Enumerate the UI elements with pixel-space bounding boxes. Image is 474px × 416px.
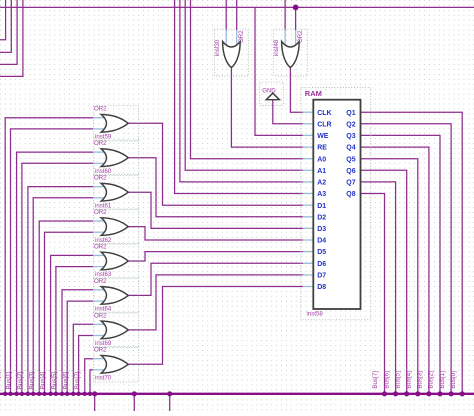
wire Bus[7] tap to inst70 in1 — [85, 359, 94, 394]
junction bus Q3 tap — [437, 391, 442, 396]
wire inst48 input A — [284, 0, 286, 31]
svg-text:Q3: Q3 — [346, 133, 355, 140]
junction bus Q6 tap — [404, 391, 409, 396]
wire inst63 out to D5 — [128, 252, 303, 261]
node label Bus[5] (left) — [51, 371, 62, 391]
svg-text:Q1: Q1 — [346, 110, 355, 117]
wire Bus[4] tap to inst63 in2 — [56, 267, 94, 394]
junction bus left tap 10 — [54, 392, 58, 396]
svg-text:CLK: CLK — [317, 110, 331, 117]
svg-text:Q7: Q7 — [346, 180, 355, 187]
wire Bus[2] tap to inst61 in1 — [28, 187, 94, 394]
svg-text:Bus[2]: Bus[2] — [428, 371, 435, 389]
svg-text:D6: D6 — [317, 261, 326, 268]
wire CLR net (GND) — [273, 100, 303, 124]
svg-text:inst48: inst48 — [273, 39, 280, 56]
node label Bus[6] (left) — [62, 371, 73, 391]
wire A1 net — [185, 0, 303, 170]
svg-text:Bus[4]: Bus[4] — [40, 371, 47, 389]
svg-text:RE: RE — [317, 145, 327, 152]
svg-text:Bus[7]: Bus[7] — [372, 371, 379, 389]
junction bus left tap 7 — [37, 392, 41, 396]
svg-text:D8: D8 — [317, 284, 326, 291]
junction bus left tap 13 — [71, 392, 75, 396]
svg-text:GND: GND — [262, 88, 276, 94]
wire CLK net (inst48 out) — [290, 68, 303, 113]
svg-text:D7: D7 — [317, 273, 326, 280]
svg-text:OR2: OR2 — [94, 106, 107, 113]
svg-text:inst58: inst58 — [307, 310, 324, 317]
or-gate inst30 (OR2, rotated) — [214, 29, 248, 76]
wire inst62 out to D4 — [128, 227, 303, 240]
or-gate inst60 (OR2) — [94, 140, 139, 175]
svg-text:inst70: inst70 — [95, 375, 112, 382]
svg-text:Bus[3]: Bus[3] — [28, 371, 35, 389]
svg-text:Bus[5]: Bus[5] — [394, 371, 401, 389]
svg-text:Bus[4]: Bus[4] — [406, 371, 413, 389]
svg-text:OR2: OR2 — [94, 175, 107, 182]
wire bus drop 3 — [169, 394, 171, 411]
wire top-left L4 — [0, 0, 23, 76]
junction bus drop 3 — [167, 391, 172, 396]
wire Bus[1] tap to inst60 in2 — [22, 163, 94, 393]
node label Bus[2] (left) — [17, 371, 28, 391]
wire inst30 input A — [225, 0, 227, 31]
wire Q4 to Bus[3] tap — [360, 147, 429, 394]
node label Bus[3] (left) — [28, 371, 38, 391]
svg-text:OR2: OR2 — [94, 209, 107, 216]
or-gate inst59 (OR2) — [94, 106, 139, 141]
junction bus left tap 14 — [76, 392, 80, 396]
wire inst48 input B (from rail) — [295, 7, 297, 30]
junction bus left tap 4 — [20, 392, 24, 396]
junction bus Q2 tap — [449, 391, 454, 396]
wire Bus[0] tap to inst59 in1 — [5, 118, 94, 394]
wire inst70 out to D8 — [128, 287, 303, 365]
wire inst59 out to D1 — [128, 123, 303, 205]
svg-text:Q6: Q6 — [346, 168, 355, 175]
wire Bus[6] tap to inst69 in1 — [73, 324, 94, 394]
wire A3 net — [175, 0, 303, 194]
junction bus Q8 tap — [382, 391, 387, 396]
or-gate inst61 (OR2) — [94, 175, 139, 210]
svg-text:OR2: OR2 — [297, 30, 304, 43]
or-gate inst70 (OR2) — [94, 347, 139, 382]
junction bus left tap 16 — [88, 392, 92, 396]
svg-text:Q4: Q4 — [346, 145, 355, 152]
node label Bus[4] (left) — [40, 371, 50, 391]
svg-text:Bus[3]: Bus[3] — [417, 371, 424, 389]
junction bus drop 1 — [92, 391, 97, 396]
RAM block inst58 — [301, 88, 371, 320]
svg-text:A0: A0 — [317, 156, 326, 163]
wire inst61 out to D3 — [128, 192, 303, 228]
svg-text:OR2: OR2 — [94, 312, 107, 319]
wire Q3 to Bus[2] tap — [360, 135, 440, 393]
junction bus left tap 5 — [26, 392, 30, 396]
or-gate inst63 (OR2) — [94, 243, 139, 278]
svg-text:RAM: RAM — [305, 89, 322, 98]
wire Bus[3] tap to inst62 in1 — [39, 221, 94, 394]
svg-text:OR2: OR2 — [94, 243, 107, 250]
junction bus drop 2 — [132, 391, 137, 396]
svg-text:D5: D5 — [317, 249, 326, 256]
svg-text:D2: D2 — [317, 214, 326, 221]
wire Q8 to Bus[7] tap — [360, 194, 384, 394]
svg-text:Bus[5]: Bus[5] — [51, 371, 58, 389]
wire top rail net — [0, 6, 474, 8]
svg-text:inst30: inst30 — [214, 39, 221, 56]
wire Bus[2] tap to inst61 in2 — [33, 198, 94, 394]
junction bus left tap 9 — [48, 392, 52, 396]
wire Bus[1] tap to inst60 in1 — [17, 152, 94, 394]
wire A0 net — [191, 0, 303, 159]
junction bus left tap 1 — [3, 392, 7, 396]
wire Q6 to Bus[5] tap — [360, 170, 406, 393]
wire A2 net — [180, 0, 303, 182]
wire Bus[4] tap to inst63 in1 — [51, 255, 94, 393]
or-gate inst48 (OR2, rotated) — [273, 29, 307, 76]
wire WE net — [255, 7, 303, 135]
svg-text:OR2: OR2 — [94, 278, 107, 285]
wire Bus[7] tap to inst70 in2 — [90, 370, 94, 394]
wire inst30 input B — [236, 0, 238, 31]
ground GND symbol — [260, 82, 284, 105]
svg-text:A2: A2 — [317, 180, 326, 187]
bus bottom Bus[7..0] — [0, 393, 474, 395]
or-gate inst62 (OR2) — [94, 209, 139, 244]
svg-text:Bus[1]: Bus[1] — [6, 371, 13, 389]
junction bus Q7 tap — [393, 391, 398, 396]
wire Bus[0] tap to inst59 in2 — [11, 129, 94, 394]
node label Bus[7] (left) — [74, 371, 84, 391]
wire bus drop 2 — [133, 394, 135, 411]
wire Bus[3] tap to inst62 in2 — [45, 232, 94, 394]
junction bus left tap 12 — [65, 392, 69, 396]
svg-text:Bus[2]: Bus[2] — [17, 371, 24, 389]
wire top-left L1 — [0, 0, 6, 40]
svg-text:OR2: OR2 — [238, 30, 245, 43]
wire inst64 out to D6 — [128, 263, 303, 295]
junction bus Q1 tap — [460, 391, 465, 396]
junction bus left tap 15 — [83, 392, 87, 396]
svg-text:OR2: OR2 — [94, 347, 107, 354]
svg-text:D3: D3 — [317, 226, 326, 233]
svg-text:Q2: Q2 — [346, 121, 355, 128]
junction bus Q5 tap — [415, 391, 420, 396]
wire inst69 out to D7 — [128, 275, 303, 330]
wire bus drop 1 — [94, 394, 96, 411]
svg-text:D1: D1 — [317, 203, 326, 210]
junction on rail at inst48 input — [293, 5, 299, 11]
svg-text:Bus[7]: Bus[7] — [74, 371, 81, 389]
wire Q5 to Bus[4] tap — [360, 159, 417, 394]
svg-text:Q5: Q5 — [346, 156, 355, 163]
junction bus left tap 6 — [31, 392, 35, 396]
wire Q1 to Bus[0] tap — [360, 112, 462, 394]
wire RE net (inst30 out) — [231, 68, 303, 148]
svg-text:CLR: CLR — [317, 121, 331, 128]
wire Q2 to Bus[1] tap — [360, 124, 451, 394]
svg-text:Bus[1]: Bus[1] — [439, 371, 446, 389]
node label Bus[0] (left) — [0, 371, 5, 391]
svg-text:Bus[6]: Bus[6] — [62, 371, 69, 389]
wire Bus[6] tap to inst69 in2 — [79, 336, 94, 394]
junction bus left tap 2 — [8, 392, 12, 396]
svg-text:Bus[0]: Bus[0] — [0, 371, 1, 389]
svg-text:Q8: Q8 — [346, 191, 355, 198]
svg-text:A3: A3 — [317, 191, 326, 198]
junction bus left tap 3 — [14, 392, 18, 396]
svg-text:D4: D4 — [317, 238, 326, 245]
junction bus Q4 tap — [426, 391, 431, 396]
svg-text:OR2: OR2 — [94, 140, 107, 147]
wire top-left L3 — [0, 0, 17, 64]
svg-text:A1: A1 — [317, 168, 326, 175]
or-gate inst69 (OR2) — [94, 312, 139, 347]
wire Bus[5] tap to inst64 in1 — [62, 290, 94, 394]
wire inst60 out to D2 — [128, 158, 303, 217]
wire Bus[5] tap to inst64 in2 — [67, 301, 94, 394]
svg-text:Bus[6]: Bus[6] — [383, 371, 390, 389]
junction bus left tap 8 — [42, 392, 46, 396]
node label Bus[1] (left) — [6, 371, 17, 391]
wire top-left L2 — [0, 0, 11, 52]
svg-text:Bus[0]: Bus[0] — [450, 371, 457, 389]
junction bus left tap 11 — [60, 392, 64, 396]
wire Q7 to Bus[6] tap — [360, 182, 395, 394]
svg-text:WE: WE — [317, 133, 329, 140]
or-gate inst64 (OR2) — [94, 278, 139, 313]
